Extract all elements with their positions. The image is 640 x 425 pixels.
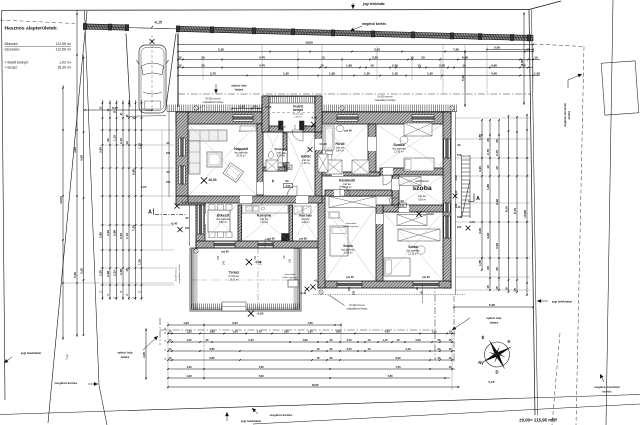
svg-text:75: 75 — [286, 161, 290, 165]
svg-text:Házt.hely: Házt.hely — [299, 214, 312, 218]
bottom row 6 — [168, 368, 455, 370]
svg-text:4,38 m²: 4,38 m² — [302, 162, 310, 165]
svg-text:határa: határa — [121, 355, 130, 359]
svg-text:1,55: 1,55 — [534, 72, 540, 76]
svg-text:hőszivattyú: hőszivattyú — [346, 222, 358, 225]
svg-text:150: 150 — [457, 215, 462, 219]
door arc terrace door — [265, 239, 274, 248]
leader lines to downspout label — [330, 295, 345, 306]
svg-text:1,20: 1,20 — [364, 72, 370, 76]
svg-text:7,20: 7,20 — [132, 225, 136, 231]
left column block — [102, 100, 104, 300]
dashed line near area table — [0, 20, 75, 24]
svg-text:1,20: 1,20 — [186, 330, 192, 334]
szoba SW heat pump indoor unit — [329, 212, 339, 218]
svg-text:5,00: 5,00 — [494, 46, 500, 50]
svg-text:10: 10 — [486, 165, 490, 169]
svg-text:90: 90 — [285, 179, 289, 183]
roof overhang line west upper — [168, 112, 170, 197]
svg-text:5,00: 5,00 — [461, 75, 465, 81]
svg-text:3,20: 3,20 — [478, 166, 482, 172]
svg-text:Közlekedő: Közlekedő — [339, 179, 355, 183]
svg-text:150: 150 — [217, 255, 220, 260]
door arc szoba SE — [389, 198, 399, 208]
gate line in fence gap — [127, 28, 178, 29]
svg-text:2,03: 2,03 — [119, 233, 123, 239]
svg-text:beltéri egysége: beltéri egysége — [344, 225, 360, 228]
svg-text:kerítés: kerítés — [602, 390, 611, 394]
nappali coffee table — [207, 152, 222, 167]
svg-text:5,40: 5,40 — [248, 338, 254, 342]
car front marker — [150, 39, 155, 44]
existing fence hatched band north — [85, 24, 127, 30]
radiator eloter/furdo wall — [318, 154, 328, 172]
svg-text:10: 10 — [495, 166, 499, 170]
svg-text:18,30 m²: 18,30 m² — [57, 66, 72, 70]
svg-text:30: 30 — [253, 105, 257, 109]
eaves comb north-left — [167, 111, 262, 113]
compass rose — [475, 333, 518, 376]
bottom left vertical 4,00 — [145, 328, 147, 380]
szoba NE bed — [404, 158, 434, 171]
svg-text:15: 15 — [534, 56, 538, 60]
terrace steps — [222, 302, 246, 311]
svg-text:1,80: 1,80 — [209, 330, 215, 334]
svg-text:15: 15 — [526, 48, 530, 52]
plot boundary east (double line) — [529, 10, 535, 416]
svg-text:2,10: 2,10 — [119, 138, 123, 144]
right witness lines — [455, 117, 530, 119]
road edge line far right — [606, 0, 613, 425]
svg-text:2,70: 2,70 — [346, 338, 352, 342]
svg-text:240: 240 — [455, 203, 458, 208]
svg-text:1,80: 1,80 — [486, 184, 490, 190]
svg-text:30: 30 — [421, 56, 425, 60]
svg-text:Étkező: Étkező — [217, 213, 230, 218]
etkezo dining table and chairs — [208, 210, 230, 232]
svg-text:30: 30 — [486, 266, 490, 270]
svg-text:határa: határa — [235, 88, 244, 92]
svg-text:2,70: 2,70 — [486, 149, 490, 155]
svg-text:4,10: 4,10 — [405, 347, 411, 351]
terrace outline — [190, 248, 301, 311]
svg-text:kerítés: kerítés — [567, 110, 571, 119]
szoba SW bed — [330, 226, 348, 256]
bottom row 16,60 — [168, 386, 460, 388]
dimension row 4 — [178, 75, 540, 77]
entry structure fedett belepo — [262, 96, 322, 132]
svg-text:É: É — [482, 335, 485, 340]
svg-text:2,10: 2,10 — [239, 105, 245, 109]
svg-text:30: 30 — [495, 139, 499, 143]
dimension row 2 — [178, 59, 540, 61]
svg-text:D: D — [495, 370, 498, 375]
svg-text:15: 15 — [178, 56, 182, 60]
svg-text:padlófűtéssel: padlófűtéssel — [415, 180, 429, 183]
svg-text:1,80: 1,80 — [283, 330, 289, 334]
svg-text:10,88: 10,88 — [523, 210, 527, 218]
svg-text:meglévő kerítés: meglévő kerítés — [362, 22, 386, 26]
svg-text:D=100 mm-es: D=100 mm-es — [176, 266, 178, 281]
dimension row total 16,60 — [178, 44, 533, 46]
roof overhang line east — [455, 112, 457, 295]
svg-text:1,05: 1,05 — [186, 338, 192, 342]
terrace level -0,50 — [248, 310, 254, 316]
svg-text:210: 210 — [400, 204, 405, 208]
window szoba SE south — [413, 281, 439, 287]
bottom row 5 — [168, 359, 455, 361]
level -0,40 left of wing — [305, 287, 310, 292]
svg-text:2,28: 2,28 — [106, 271, 110, 277]
left witness lines — [100, 129, 174, 131]
svg-text:3,26: 3,26 — [495, 199, 499, 205]
entry posts — [279, 121, 284, 130]
eaves comb north-right — [322, 111, 457, 113]
szoba SE wardrobe — [398, 229, 440, 241]
bottom row 7 — [168, 377, 450, 379]
svg-text:3,22 m²: 3,22 m² — [301, 221, 309, 224]
svg-text:1,25: 1,25 — [392, 72, 398, 76]
svg-text:1,30: 1,30 — [307, 330, 313, 334]
svg-text:7,80: 7,80 — [387, 374, 393, 378]
nappali tv bench — [240, 126, 256, 131]
dimension column left 3 — [83, 55, 85, 335]
svg-text:Konyha: Konyha — [257, 214, 272, 218]
witness lines top dim block — [177, 44, 179, 93]
plot boundary west slanted line 2 — [85, 11, 100, 385]
szoba NE chair — [400, 136, 408, 144]
window nappali west 2 — [179, 166, 185, 184]
svg-text:7,20 m²: 7,20 m² — [260, 221, 268, 224]
svg-text:9,00 m²: 9,00 m² — [219, 221, 227, 224]
wall partition szoba SW/SE — [376, 205, 383, 281]
neighbour building outline top right — [601, 61, 639, 115]
eaves comb entry top — [262, 96, 322, 98]
building envelope dashed top — [178, 93, 531, 95]
wall partition furdo/szoba — [368, 124, 376, 176]
svg-text:4,60: 4,60 — [491, 64, 497, 68]
svg-text:10: 10 — [462, 64, 466, 68]
svg-text:földszint:: földszint: — [5, 42, 19, 46]
svg-text:3,20: 3,20 — [372, 56, 378, 60]
building envelope dashed east segment — [434, 282, 436, 360]
marker -0,45 right — [466, 226, 471, 231]
svg-text:építési hely: építési hely — [117, 351, 133, 355]
svg-text:0,85: 0,85 — [209, 356, 215, 360]
svg-text:meglévő kerítés: meglévő kerítés — [55, 381, 78, 385]
svg-text:építési hely: építési hely — [486, 316, 502, 320]
svg-text:Szoba: Szoba — [408, 245, 418, 249]
szoba SE chair — [417, 246, 425, 254]
svg-text:2,20: 2,20 — [99, 270, 103, 276]
svg-text:összesen:: összesen: — [5, 48, 21, 52]
door arc szoba E — [383, 175, 393, 185]
door arc eloter to mid — [287, 186, 297, 196]
plot boundary west edge line — [2, 10, 6, 400]
svg-text:tő.máz.lap: tő.máz.lap — [293, 112, 304, 115]
bottom witness lines — [167, 322, 169, 390]
szoba E wardrobe x-band — [399, 177, 421, 186]
szoba SE bed — [384, 258, 410, 276]
wall koezlekedo south wall — [325, 190, 392, 196]
svg-text:Előtér: Előtér — [301, 155, 311, 159]
svg-text:9,59 m²: 9,59 m² — [418, 199, 426, 202]
second boundary line bottom right — [253, 404, 640, 424]
svg-text:1,92 m²: 1,92 m² — [294, 115, 302, 118]
svg-text:2,90: 2,90 — [415, 338, 421, 342]
svg-text:30: 30 — [495, 267, 499, 271]
svg-text:jogi telekhatár: jogi telekhatár — [20, 351, 42, 355]
svg-text:1,20: 1,20 — [186, 374, 192, 378]
eloter level pm — [308, 147, 313, 152]
svg-text:1,90: 1,90 — [346, 64, 352, 68]
wall partition eloter/furdo — [315, 124, 322, 196]
svg-text:+ terasz:: + terasz: — [5, 66, 19, 70]
terrace level -0,02 — [246, 259, 252, 265]
svg-text:16,60: 16,60 — [305, 41, 313, 45]
wall partition nappali/zuhanyzo — [257, 124, 263, 196]
svg-text:meglévő, bontandó: meglévő, bontandó — [594, 385, 620, 389]
svg-text:8,93°: 8,93° — [520, 58, 524, 66]
svg-text:10,59 m²: 10,59 m² — [342, 186, 352, 189]
svg-text:-0,02: -0,02 — [311, 116, 318, 120]
svg-text:5,91°: 5,91° — [141, 185, 148, 189]
svg-text:szoba: szoba — [412, 185, 431, 192]
bottom row 3 — [168, 341, 455, 343]
svg-text:15: 15 — [486, 285, 490, 289]
svg-text:3,20: 3,20 — [73, 272, 77, 278]
svg-text:6,90: 6,90 — [395, 356, 401, 360]
wall partition etkezo/konyha — [238, 205, 242, 241]
svg-text:4,00: 4,00 — [142, 352, 146, 358]
svg-text:10: 10 — [370, 64, 374, 68]
svg-text:15: 15 — [178, 64, 182, 68]
dash line below SE corner — [453, 296, 455, 362]
svg-text:Hasznos alapterületek:: Hasznos alapterületek: — [5, 26, 59, 32]
vertical dim 5,00 top right — [464, 50, 466, 107]
konyha counter with sink — [242, 205, 288, 213]
svg-text:3,90: 3,90 — [99, 147, 103, 153]
svg-text:2,20: 2,20 — [439, 64, 445, 68]
wall partition konyha/hazt — [289, 205, 293, 241]
svg-text:12,42 m²: 12,42 m² — [394, 151, 404, 154]
svg-text:pm 90: pm 90 — [344, 129, 352, 133]
window konyha door to terrace — [258, 241, 273, 247]
svg-text:112,56 m²: 112,56 m² — [56, 48, 72, 52]
wall north left wing — [176, 112, 262, 124]
svg-text:3,00: 3,00 — [495, 243, 499, 249]
svg-text:meglévő, bontandó: meglévő, bontandó — [563, 103, 567, 127]
svg-text:Szoba: Szoba — [393, 143, 405, 147]
level -0,30 at west jog — [174, 203, 179, 208]
svg-text:csapadékvíz lefolyó: csapadékvíz lefolyó — [347, 308, 369, 311]
svg-text:2,99: 2,99 — [113, 230, 117, 236]
svg-text:5,15°: 5,15° — [488, 380, 496, 384]
svg-text:Zuhanyzó: Zuhanyzó — [275, 147, 288, 151]
wall east — [443, 112, 451, 288]
svg-text:5,00: 5,00 — [489, 303, 495, 307]
door arc szoba SW from corridor — [340, 186, 350, 196]
svg-text:Nappali: Nappali — [234, 147, 248, 151]
door gaps (openings in walls) — [257, 182, 263, 194]
window furdo north — [337, 115, 358, 121]
right column block — [481, 120, 483, 270]
west wall witness vertical — [161, 130, 163, 250]
svg-text:1,73: 1,73 — [125, 233, 129, 239]
svg-text:-0,02: -0,02 — [455, 175, 458, 181]
svg-text:1,55: 1,55 — [427, 72, 433, 76]
svg-text:7,60: 7,60 — [258, 365, 264, 369]
bottom row 2 — [168, 333, 455, 335]
svg-text:150: 150 — [166, 180, 171, 184]
svg-text:150: 150 — [185, 226, 190, 230]
svg-text:±0,00: ±0,00 — [319, 142, 327, 146]
level -0,45 west — [177, 227, 182, 232]
svg-text:2,10: 2,10 — [455, 190, 458, 195]
svg-text:15: 15 — [321, 56, 325, 60]
nappali armchair tilted — [223, 163, 244, 183]
roof overhang dotted line south — [313, 294, 465, 296]
svg-text:-0,30: -0,30 — [181, 201, 188, 205]
svg-text:pm 90: pm 90 — [346, 275, 354, 279]
svg-text:2,28: 2,28 — [119, 269, 123, 275]
svg-text:4,40: 4,40 — [491, 72, 497, 76]
svg-text:9,70: 9,70 — [513, 208, 517, 214]
dim 5,00 house to east boundary bottom — [454, 306, 533, 308]
heat pump outdoor unit — [288, 280, 298, 287]
svg-text:1,95: 1,95 — [329, 72, 335, 76]
window szoba E east — [444, 203, 450, 212]
svg-text:150: 150 — [457, 225, 462, 229]
svg-text:1,10: 1,10 — [382, 338, 388, 342]
svg-text:150: 150 — [457, 153, 462, 157]
svg-text:1,35: 1,35 — [431, 330, 437, 334]
svg-text:240: 240 — [223, 260, 226, 265]
nappali sofa — [189, 130, 227, 174]
dimension column left 2 — [76, 11, 78, 338]
svg-text:30: 30 — [486, 138, 490, 142]
wall entry south left — [269, 126, 283, 132]
svg-text:1,00: 1,00 — [232, 330, 238, 334]
wall west upper (nappali) — [176, 112, 188, 196]
furdo wc — [326, 153, 332, 161]
szoba E bottom wardrobe — [397, 215, 427, 226]
svg-text:150: 150 — [348, 286, 351, 291]
svg-text:jogi telekhatár: jogi telekhatár — [551, 300, 573, 304]
svg-text:Terasz: Terasz — [229, 271, 240, 275]
svg-text:4,78 m²: 4,78 m² — [277, 155, 285, 158]
svg-text:210: 210 — [286, 166, 291, 170]
wall partition szoba NE / szoba E — [380, 168, 443, 175]
level markers inside house — [201, 177, 207, 183]
svg-text:10: 10 — [125, 141, 129, 145]
svg-text:99: 99 — [400, 199, 404, 203]
fence posts — [83, 23, 87, 29]
wall szoba E south wall — [383, 205, 443, 212]
wall furdo-koezlekedo partition — [322, 172, 380, 176]
svg-text:150: 150 — [254, 255, 257, 260]
svg-text:1,92 m²: 1,92 m² — [59, 61, 72, 65]
svg-text:1,20: 1,20 — [183, 321, 189, 325]
window etkezo south — [214, 241, 235, 247]
wall zuhanyzo south — [263, 167, 287, 171]
terrace comb south — [192, 309, 300, 311]
svg-text:pm 90: pm 90 — [221, 250, 229, 254]
svg-text:6,07: 6,07 — [112, 106, 118, 110]
wall partition zuhanyzo/eloter — [283, 133, 287, 171]
wall entry east — [315, 96, 322, 132]
svg-text:Fürdő: Fürdő — [335, 142, 344, 146]
svg-text:meglévő kerítés: meglévő kerítés — [270, 413, 293, 417]
front walk vertical line — [177, 34, 179, 108]
window szoba NE north — [412, 115, 434, 121]
svg-text:máz.ker: máz.ker — [418, 195, 426, 198]
wall south left wing — [196, 241, 322, 248]
door arc zuhanyzo — [277, 153, 287, 163]
svg-text:6,80: 6,80 — [132, 169, 136, 175]
furdo washing machine x-boxes — [325, 160, 342, 174]
wall mid wall left wing — [188, 196, 322, 203]
svg-text:belépő: belépő — [293, 108, 303, 112]
svg-text:5,94 m²: 5,94 m² — [336, 150, 344, 153]
window szoba SW south — [337, 281, 362, 287]
svg-text:18,30 m²: 18,30 m² — [229, 278, 238, 281]
svg-text:1,35: 1,35 — [138, 259, 142, 265]
svg-text:határa: határa — [490, 321, 499, 325]
svg-text:12,30 m²: 12,30 m² — [408, 253, 418, 256]
svg-text:30: 30 — [106, 138, 110, 142]
svg-text:+0,30: +0,30 — [265, 105, 272, 109]
wall west of south-east wing — [318, 196, 325, 288]
bottom row 1 — [168, 324, 341, 326]
svg-text:kültéri egysége: kültéri egysége — [283, 276, 298, 279]
svg-text:±0,00= 115,95 mBf: ±0,00= 115,95 mBf — [519, 418, 557, 423]
wall west lower (etkezo) — [196, 205, 205, 248]
svg-text:2,85: 2,85 — [99, 232, 103, 238]
svg-text:112,56 m²: 112,56 m² — [56, 42, 72, 46]
hazt.hely appliances — [294, 206, 302, 214]
konyha stove (dark) — [282, 234, 290, 242]
svg-text:-0,50: -0,50 — [257, 311, 264, 315]
window nappali north — [233, 115, 253, 121]
wall entry west — [262, 96, 269, 132]
svg-text:0,85: 0,85 — [209, 347, 215, 351]
svg-text:2,23: 2,23 — [113, 270, 117, 276]
svg-text:1,20: 1,20 — [186, 365, 192, 369]
driveway edge right — [166, 34, 176, 108]
dimension row 5,00 to boundary — [487, 49, 533, 51]
car (top view) — [127, 45, 169, 116]
wall entry south right — [303, 126, 315, 132]
terrace comb west — [191, 249, 193, 310]
svg-text:7,60: 7,60 — [258, 374, 264, 378]
svg-text:csapadékvíz lefolyó: csapadékvíz lefolyó — [203, 101, 225, 104]
svg-text:2,00: 2,00 — [392, 64, 398, 68]
svg-text:1,10: 1,10 — [113, 135, 117, 141]
szoba NE wardrobe — [404, 123, 432, 136]
svg-text:240: 240 — [260, 260, 263, 265]
svg-text:fa.máz.ker: fa.máz.ker — [229, 275, 240, 278]
downspout circles — [194, 106, 198, 110]
furdo bathtub — [324, 126, 334, 150]
furdo sink — [336, 126, 344, 132]
terrace centre lines — [257, 248, 259, 311]
corridor closet x-band — [329, 197, 376, 208]
svg-text:csapadékvíz lefolyó: csapadékvíz lefolyó — [375, 99, 397, 102]
window szoba SE east — [444, 216, 450, 238]
svg-text:jogi telekhatár: jogi telekhatár — [362, 2, 385, 6]
svg-text:10,00: 10,00 — [59, 196, 63, 204]
